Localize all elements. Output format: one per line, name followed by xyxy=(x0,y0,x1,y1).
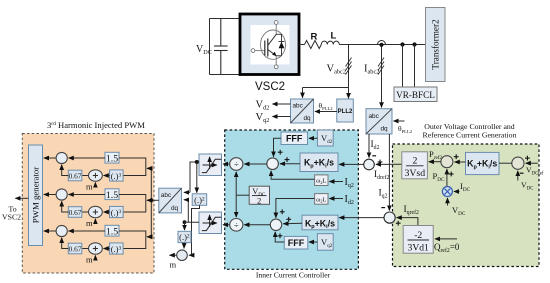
region Inner Current Controller xyxy=(225,130,359,269)
svg-text:m: m xyxy=(170,260,177,270)
wire m into multiplier a xyxy=(94,183,96,188)
block PWM generator xyxy=(29,145,43,246)
wire cuber c to multiplier c xyxy=(104,248,110,250)
block squarer d xyxy=(192,194,207,206)
block gain 1.5 phase c xyxy=(105,225,119,237)
wire Vd2 to FFF xyxy=(309,137,317,139)
wire VDC/2 to both dividers xyxy=(236,172,249,217)
wire multiplier c to 0.67c xyxy=(82,248,89,250)
label plus VDCref xyxy=(525,156,530,161)
region Outer Voltage Controller and Reference Current Generation xyxy=(393,144,540,267)
wire PI outer to P sum xyxy=(455,161,466,163)
svg-text:VSC2: VSC2 xyxy=(255,81,285,93)
summing junction P xyxy=(441,156,453,168)
block omega2L upper xyxy=(315,175,328,186)
svg-text:0.67: 0.67 xyxy=(69,208,82,217)
junction dot Iabc2 tap xyxy=(379,43,383,47)
svg-text:abc: abc xyxy=(369,113,380,120)
label plus FFF into d sum xyxy=(278,150,283,155)
wire FFF to d sum xyxy=(274,138,282,156)
wire divider q to limiter q xyxy=(223,224,230,226)
svg-text:FFF: FFF xyxy=(288,238,305,248)
wire Id2 stub into omega2L lower xyxy=(329,198,343,200)
limiter block q xyxy=(199,212,222,234)
wire 0.67c to sum c bottom xyxy=(62,238,69,249)
label plus FFF q into sum xyxy=(278,233,283,238)
summing junction phase a xyxy=(56,152,67,163)
wire 0.67a to sum a bottom xyxy=(62,165,69,176)
current sensor bump at Iabc2 tap xyxy=(378,41,386,45)
wire DC bus (top, bottom, left vertical) xyxy=(210,19,241,75)
wire Vq2 out of abc-dq1 xyxy=(273,116,291,118)
label plus PDC into P sum xyxy=(449,172,454,177)
svg-text:dq: dq xyxy=(171,205,179,212)
wire 1.5c to sum c xyxy=(69,230,105,232)
wire md* from limiter d to dq-abc xyxy=(184,162,199,192)
svg-text:FFF: FFF xyxy=(286,134,303,144)
capacitor DC link xyxy=(214,19,228,75)
svg-text:PWM generator: PWM generator xyxy=(30,167,40,223)
wire cuber b to multiplier b xyxy=(104,211,110,213)
label plus at Iqref2 sum xyxy=(396,221,401,226)
svg-text:0.67: 0.67 xyxy=(69,245,82,254)
svg-text:Inner Current Controller: Inner Current Controller xyxy=(256,271,331,280)
label plus omega2L into q sum xyxy=(280,209,285,214)
svg-text:dq: dq xyxy=(304,115,312,122)
block PI controller q xyxy=(302,215,338,230)
wire multiplier b to 0.67b xyxy=(82,211,89,213)
wire squarer q to m sum xyxy=(183,243,185,249)
wire cuber a to multiplier a xyxy=(104,175,110,177)
wire multiplier a to 0.67a xyxy=(82,175,89,177)
region 3rd Harmonic Injected PWM xyxy=(22,134,154,274)
wire Qref2 stub into -2/3Vd1 xyxy=(435,238,457,240)
wire mq* from limiter q to dq-abc xyxy=(184,200,199,222)
svg-text:abc: abc xyxy=(161,192,172,199)
wire Iqref2 sum to PI q xyxy=(339,217,384,219)
svg-text:2: 2 xyxy=(413,155,418,166)
summing junction VDC error xyxy=(512,157,524,169)
block PLL2 xyxy=(337,99,354,122)
svg-text:0.67: 0.67 xyxy=(69,172,82,181)
block PI controller d xyxy=(300,153,338,172)
wire VDC sum to PI outer xyxy=(499,162,512,164)
svg-text:m: m xyxy=(86,182,93,192)
junction dot VR-BFCL right xyxy=(412,42,416,46)
wire PDC from multiplier to P sum xyxy=(446,169,448,186)
svg-text:1.5: 1.5 xyxy=(106,190,118,201)
wire L to Transformer2 xyxy=(339,44,425,46)
summing junction q-axis xyxy=(270,219,281,230)
svg-text:abc: abc xyxy=(293,103,304,110)
label plus PI q into sum xyxy=(286,217,291,222)
label plus PI d into sum xyxy=(285,157,290,162)
svg-text:-2: -2 xyxy=(414,230,422,241)
wire 1.5a to sum a xyxy=(69,157,105,159)
wire q sum to divider q xyxy=(244,224,270,226)
junction dot VR-BFCL left xyxy=(400,42,404,46)
wire divider d to limiter d xyxy=(223,163,230,165)
svg-text:m: m xyxy=(86,218,93,228)
svg-text:Reference Current Generation: Reference Current Generation xyxy=(423,131,517,140)
wire P sum to 2/3Vsd xyxy=(429,161,441,163)
converter VSC2 box xyxy=(240,14,299,75)
svg-text:VR-BFCL: VR-BFCL xyxy=(396,90,435,100)
wire down to VR-BFCL (left) xyxy=(402,45,404,88)
summing junction phase b xyxy=(56,189,67,200)
block squarer q xyxy=(178,231,191,242)
block cuber phase a xyxy=(110,170,124,181)
svg-text:3rd Harmonic Injected PWM: 3rd Harmonic Injected PWM xyxy=(47,120,145,130)
svg-text:R: R xyxy=(311,32,318,43)
wire md to squarer d xyxy=(196,162,198,193)
svg-text:Transformer2: Transformer2 xyxy=(431,19,441,70)
block Vq2 source xyxy=(317,234,333,251)
three-phase marker on Iabc2 xyxy=(378,58,384,75)
wire m_abc from dq-abc to PWM rows bus xyxy=(148,168,159,236)
summing junction d-axis xyxy=(267,158,279,170)
wire feed bus to 1.5b and cuber b xyxy=(119,195,151,213)
label plus PI outer into P sum xyxy=(454,154,459,159)
wire PI q to q sum xyxy=(283,222,302,224)
block FFF d-axis xyxy=(281,132,308,145)
block Transformer2 xyxy=(426,8,446,82)
wire Iabc2 tap down to abc-dq2 xyxy=(381,47,383,108)
summing junction Idref2 xyxy=(364,159,375,170)
wire Vabc2 tap down to PLL2 and abc-dq1 xyxy=(303,45,349,99)
divider circle q xyxy=(230,219,243,232)
wire PWM generator output To VSC2 xyxy=(15,197,28,199)
wire PI d to d sum xyxy=(280,163,300,165)
multiplier circle phase b xyxy=(89,206,103,217)
label plus at Idref2 sum xyxy=(378,160,383,165)
svg-text:L: L xyxy=(331,31,337,42)
block abc-dq transform 2 xyxy=(366,109,392,134)
block gain 1.5 phase a xyxy=(105,152,119,164)
block 2/3Vsd xyxy=(402,152,428,179)
label minus VDC xyxy=(520,172,524,174)
wire feed bus to 1.5c and cuber c xyxy=(119,231,151,249)
wire Idref2 sum to PI d xyxy=(339,163,364,165)
block -2/3Vd1 xyxy=(403,226,433,254)
wire feed bus to 1.5a and cuber a xyxy=(119,158,151,176)
inductor L xyxy=(321,41,339,44)
svg-text:1.5: 1.5 xyxy=(106,226,118,237)
divider circle d xyxy=(230,158,243,171)
block VDC/2 xyxy=(249,186,269,205)
summing junction m xyxy=(177,250,188,261)
multiplier circle phase c xyxy=(89,243,103,254)
junction dot m_abc bus xyxy=(150,199,154,203)
wire sum b to PWM generator xyxy=(44,194,56,196)
wire omega2L upper to d sum bottom xyxy=(271,171,315,179)
block PI controller outer xyxy=(466,152,500,174)
block abc-dq transform 1 xyxy=(291,99,314,123)
three-phase marker on Vabc2 xyxy=(346,58,352,75)
block FFF q-axis xyxy=(284,236,308,249)
IGBT with antiparallel diode inside VSC2 xyxy=(251,21,285,69)
wire sum a to PWM generator xyxy=(44,157,56,159)
svg-text:VSC2: VSC2 xyxy=(2,213,21,222)
block VR-BFCL xyxy=(394,87,437,102)
wire FFF q to q sum bottom xyxy=(275,232,284,242)
wire sum c to PWM generator xyxy=(44,230,56,232)
wire Id2 from abc-dq2 to Idref2 sum xyxy=(368,134,370,158)
wire d sum to divider d xyxy=(244,163,266,165)
summing junction phase c xyxy=(56,225,67,236)
wire IDC into multiplier xyxy=(454,191,460,193)
block Vd2 source xyxy=(317,130,333,146)
wire Vq2 to FFF q xyxy=(309,241,317,243)
summing junction Iqref2 xyxy=(384,212,395,223)
svg-text:÷: ÷ xyxy=(234,159,239,169)
svg-text:PLL2: PLL2 xyxy=(338,109,353,115)
wire Vd2 out of abc-dq1 xyxy=(273,103,291,105)
wire VSC2 output to resistor xyxy=(299,44,305,46)
limiter block d xyxy=(199,154,222,176)
wire thetaPLL2 from PLL2 to abc-dq1 xyxy=(315,111,337,113)
block cuber phase b xyxy=(110,206,124,217)
svg-text:1.5: 1.5 xyxy=(106,153,118,164)
svg-text:÷: ÷ xyxy=(234,220,239,230)
junction dot md xyxy=(195,160,199,164)
multiplier PDC (VDC x IDC) xyxy=(442,187,452,197)
wire down to VR-BFCL (right) xyxy=(414,45,416,88)
wire omega2L lower to q sum top xyxy=(276,199,315,218)
wire m into multiplier c xyxy=(94,256,96,261)
svg-text:2: 2 xyxy=(257,196,261,205)
wire VDC into multiplier bottom xyxy=(447,198,449,205)
block dq-abc transform xyxy=(159,188,182,213)
block gain 0.67 phase a xyxy=(68,170,82,181)
wire 0.67b to sum b bottom xyxy=(62,201,69,212)
wire 2/3Vsd output to Idref2 sum xyxy=(376,163,402,165)
label To VSC2 xyxy=(2,205,21,222)
block cuber phase c xyxy=(110,243,124,254)
wire Qref2 path from -2/3Vd1 box to Iqref2 sum xyxy=(397,218,418,226)
block omega2L lower xyxy=(315,194,328,205)
svg-text:3Vsd: 3Vsd xyxy=(404,168,425,179)
multiplier circle phase a xyxy=(89,170,103,181)
block gain 0.67 phase c xyxy=(68,243,82,254)
wire m into multiplier b xyxy=(94,219,96,224)
wire m output xyxy=(170,254,177,256)
resistor R xyxy=(305,41,322,49)
junction dot mq xyxy=(183,220,187,224)
wire mq branch into squarer q xyxy=(185,222,189,230)
label minus at Idref2 sum xyxy=(372,155,376,157)
wire VDCref into VDC sum xyxy=(526,162,538,164)
block gain 0.67 phase b xyxy=(68,207,82,218)
svg-text:m: m xyxy=(86,255,93,265)
label minus at Iqref2 sum xyxy=(381,207,385,209)
wire squarer d to m sum xyxy=(189,205,199,255)
svg-text:dq: dq xyxy=(381,126,389,133)
block gain 1.5 phase b xyxy=(105,189,119,201)
svg-text:3Vd1: 3Vd1 xyxy=(408,242,430,253)
wire Iq2 from abc-dq2 down to Iqref2 sum xyxy=(388,134,390,211)
wire VDC into VDC sum bottom xyxy=(517,171,519,181)
wire Iq2 stub into omega2L upper xyxy=(329,181,343,183)
wire 1.5b to sum b xyxy=(69,194,105,196)
wire thetaPLL2 stub into abc-dq2 xyxy=(394,120,405,122)
